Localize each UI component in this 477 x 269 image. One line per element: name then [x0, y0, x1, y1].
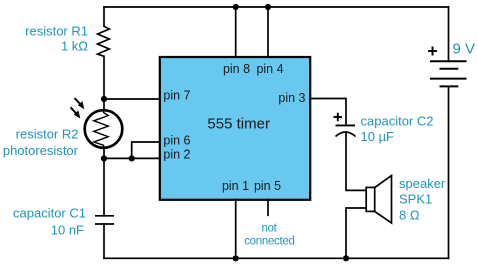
svg-text:pin 2: pin 2: [163, 148, 190, 162]
capacitor C1 bottom plate: [95, 223, 114, 225]
wire C2 to speaker: [346, 132, 366, 190]
svg-text:pin 1: pin 1: [222, 179, 249, 193]
svg-text:connected: connected: [244, 236, 294, 248]
svg-text:8 Ω: 8 Ω: [399, 208, 420, 223]
light arrow 2 into R2: [71, 107, 81, 118]
speaker SPK1 cone: [375, 176, 392, 224]
wire R1 bottom to R2: [103, 56, 105, 110]
svg-text:speaker: speaker: [399, 176, 446, 191]
node junction dot pin8 on top rail: [233, 4, 239, 10]
svg-text:pin 8: pin 8: [223, 62, 250, 76]
capacitor C2 curved bottom plate: [336, 132, 356, 137]
wire bottom ground rail: [104, 257, 449, 259]
node junction dot speaker ground: [343, 255, 349, 261]
svg-text:10 µF: 10 µF: [361, 129, 395, 144]
battery B1 plate short 1: [440, 68, 459, 70]
svg-text:photoresistor: photoresistor: [3, 143, 79, 158]
battery B1 plate long 2: [430, 78, 467, 80]
svg-text:resistor R2: resistor R2: [16, 127, 79, 142]
photoresistor R2 body: [85, 110, 123, 148]
speaker SPK1 body: [366, 187, 375, 211]
node junction dot pin7 branch: [101, 96, 107, 102]
wire pin 8: [235, 7, 237, 57]
svg-text:9 V: 9 V: [453, 41, 476, 58]
node junction dot pin6 branch: [129, 155, 135, 161]
node junction dot pin2 branch: [101, 155, 107, 161]
svg-text:resistor R1: resistor R1: [25, 24, 88, 39]
battery B1 polarity plus sign: [428, 47, 437, 56]
wire pin 3 to C2: [311, 99, 346, 126]
C2 polarity plus sign: [334, 113, 343, 121]
svg-text:pin 6: pin 6: [163, 134, 190, 148]
wire speaker to ground rail: [346, 208, 366, 258]
wire R2 bottom to C1: [103, 147, 105, 216]
photoresistor R2 inner zigzag: [94, 111, 109, 147]
svg-text:capacitor C2: capacitor C2: [361, 114, 434, 129]
svg-text:pin 4: pin 4: [256, 62, 283, 76]
wire pin 7: [104, 98, 160, 100]
wire battery top lead: [448, 7, 450, 61]
wire R1 top lead: [103, 7, 105, 26]
wire pin 1 to ground rail: [235, 200, 237, 259]
light arrow 1 into R2: [75, 98, 85, 109]
battery B1 plate short 2: [440, 85, 459, 87]
wire battery bottom lead: [448, 86, 450, 258]
node junction dot pin4 on top rail: [265, 4, 271, 10]
svg-text:SPK1: SPK1: [399, 192, 432, 207]
svg-text:not: not: [261, 223, 277, 235]
svg-text:pin 5: pin 5: [254, 179, 281, 193]
op-amp U1 555 timer body: [160, 57, 310, 200]
svg-text:pin 3: pin 3: [278, 91, 305, 105]
svg-text:capacitor C1: capacitor C1: [13, 206, 86, 221]
svg-text:10 nF: 10 nF: [51, 223, 84, 238]
node junction dot pin1 ground: [233, 255, 239, 261]
wire pin 2: [104, 157, 160, 159]
wire pin 6: [132, 142, 160, 158]
wire pin 5 stub: [267, 200, 269, 216]
battery B1 plate long 1: [430, 60, 467, 62]
capacitor C1 top plate: [95, 215, 114, 217]
capacitor C2 top plate: [336, 124, 356, 126]
wire top positive rail: [104, 6, 449, 8]
resistor R1: [98, 26, 110, 56]
svg-text:pin 7: pin 7: [163, 89, 190, 103]
wire C1 to ground rail: [103, 224, 105, 258]
svg-text:555 timer: 555 timer: [207, 116, 270, 133]
wire pin 4: [267, 7, 269, 57]
svg-text:1 kΩ: 1 kΩ: [61, 39, 88, 54]
